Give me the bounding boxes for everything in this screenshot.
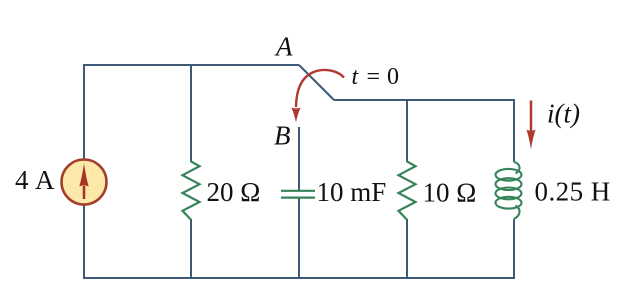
wire left branch lower <box>83 205 85 279</box>
inductor L1 coil <box>496 162 522 219</box>
wire capacitor branch lower <box>298 197 300 279</box>
wire top right section <box>334 99 514 101</box>
wire 10-ohm branch upper <box>406 99 408 162</box>
wire left branch upper <box>83 64 85 159</box>
wire switch blade diagonal A to right section <box>299 65 334 100</box>
wire top from source to node A <box>84 64 299 66</box>
wire bottom rail <box>83 277 515 279</box>
current arrow i(t) red <box>526 101 535 150</box>
capacitor C1 plates <box>281 191 315 198</box>
svg-text:20 Ω: 20 Ω <box>207 177 261 207</box>
svg-text:4 A: 4 A <box>15 165 55 195</box>
svg-text:i(t): i(t) <box>547 99 580 129</box>
wire right branch lower <box>513 219 515 279</box>
svg-text:A: A <box>274 32 293 62</box>
svg-text:B: B <box>274 121 291 151</box>
current source I1 4 A circle <box>62 160 107 205</box>
resistor R1 20 ohm zigzag <box>183 162 200 220</box>
switch action arrow t=0 (red curved) <box>291 70 344 123</box>
resistor R2 10 ohm zigzag <box>399 162 416 220</box>
wire 20-ohm branch upper <box>190 64 192 162</box>
svg-text:0.25 H: 0.25 H <box>535 177 611 207</box>
wire right branch upper <box>513 99 515 162</box>
svg-text:10 Ω: 10 Ω <box>423 177 477 207</box>
wire 20-ohm branch lower <box>190 219 192 279</box>
wire 10-ohm branch lower <box>406 219 408 279</box>
svg-text:10 mF: 10 mF <box>317 177 387 207</box>
wire capacitor stub from node B <box>298 127 300 191</box>
